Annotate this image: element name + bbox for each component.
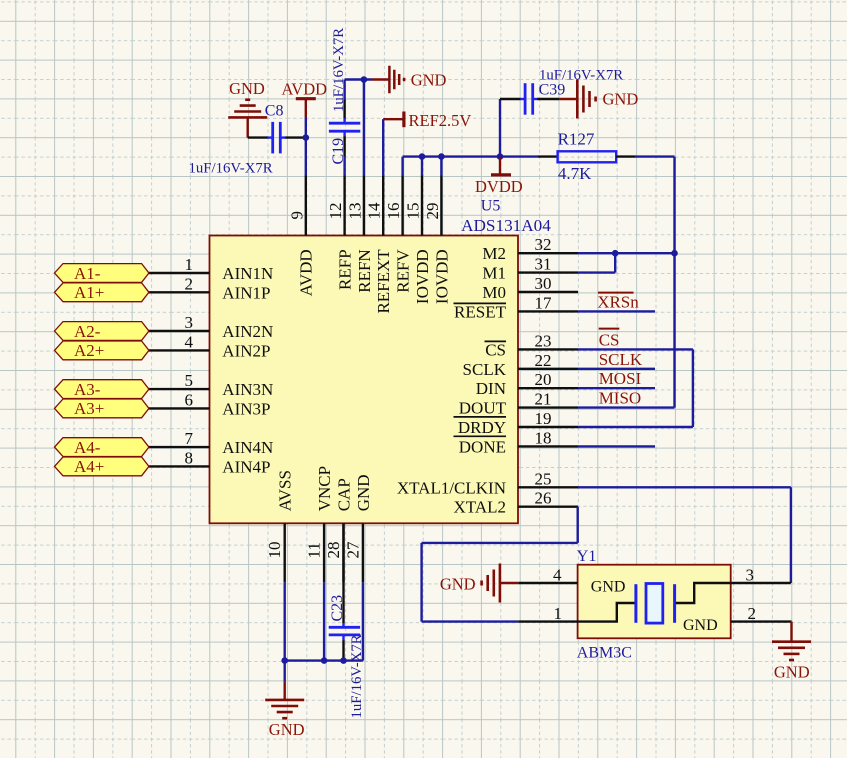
svg-text:7: 7 (185, 429, 194, 448)
wire DONE (578, 445, 655, 447)
svg-text:A1+: A1+ (74, 283, 104, 302)
U5 pin 12 REFP (top) (326, 176, 354, 290)
port A3- (55, 380, 149, 399)
svg-text:13: 13 (345, 203, 364, 220)
wire M1 up to M2 (578, 253, 615, 272)
U5 pin 31 M1 (482, 255, 578, 283)
svg-text:23: 23 (535, 331, 552, 350)
U5 pin 23 CS (485, 331, 578, 359)
svg-text:GND: GND (440, 575, 476, 594)
U5 pin 2 AIN1P (149, 274, 271, 302)
junction VNCP rail (321, 657, 328, 664)
svg-text:REFV: REFV (394, 249, 413, 293)
Y1 pin 4 GND (518, 566, 625, 596)
svg-text:GND: GND (774, 663, 810, 682)
wire AVDD to pin 9 (305, 118, 307, 176)
junction C23 rail (340, 657, 347, 664)
svg-text:28: 28 (324, 542, 343, 559)
U5 pin 20 DIN (476, 370, 578, 398)
svg-text:CS: CS (599, 330, 620, 349)
svg-text:14: 14 (365, 202, 384, 220)
Y1 pin 1 (518, 604, 577, 623)
svg-text:CS: CS (485, 340, 506, 359)
U5 pin 27 GND (bottom) (343, 474, 372, 582)
svg-text:GND: GND (591, 579, 626, 596)
U5 pin 3 AIN2N (149, 313, 274, 341)
power port REF2.5V (383, 111, 471, 130)
svg-text:A3-: A3- (74, 380, 101, 399)
power port GND (above C8) (228, 79, 267, 137)
U5 pin 23 CS overbar (485, 340, 507, 342)
U5 pin 1 AIN1N (149, 255, 274, 283)
C39 designator (539, 81, 566, 98)
U5 pin 19 DRDY (458, 409, 578, 437)
svg-text:26: 26 (535, 489, 552, 508)
svg-text:AVSS: AVSS (276, 470, 295, 511)
wire VNCP down (323, 582, 325, 660)
svg-text:1: 1 (554, 604, 563, 623)
wire bottom gnd rail (285, 659, 344, 661)
wire C19/REFN to GND (345, 78, 372, 80)
svg-text:ADS131A04: ADS131A04 (461, 216, 551, 235)
junction M1/M2 (612, 250, 619, 257)
wire DOUT to R127 net (578, 406, 675, 408)
svg-text:REFEXT: REFEXT (374, 249, 393, 314)
wire R127 down to M2/DOUT (673, 157, 675, 408)
svg-text:AIN3P: AIN3P (222, 399, 270, 418)
svg-text:U5: U5 (481, 198, 501, 215)
U5 pin 26 XTAL2 (454, 489, 578, 517)
capacitor C23 (329, 523, 360, 660)
svg-text:A1-: A1- (74, 264, 101, 283)
ground (left of Y1) (440, 564, 518, 603)
junction pin 15 (419, 153, 426, 160)
port A2- (55, 322, 149, 341)
svg-text:18: 18 (535, 428, 552, 447)
port A4- (55, 438, 149, 457)
svg-text:M2: M2 (482, 244, 506, 263)
svg-text:19: 19 (535, 409, 552, 428)
svg-text:8: 8 (185, 448, 194, 467)
junction AVSS rail (281, 657, 288, 664)
wire XTAL2 to Y1 pin 1 (422, 507, 578, 622)
svg-text:DVDD: DVDD (475, 177, 523, 196)
U5 pin 18 DONE (459, 428, 578, 456)
svg-text:3: 3 (746, 566, 755, 585)
svg-text:GND: GND (229, 79, 265, 98)
svg-text:11: 11 (305, 542, 324, 558)
U5 pin 28 CAP (bottom) (324, 478, 353, 582)
Y1 designator (577, 548, 597, 565)
resistor R127 (500, 151, 675, 162)
svg-text:2: 2 (748, 604, 757, 623)
svg-text:AIN2N: AIN2N (222, 322, 273, 341)
svg-text:AIN3N: AIN3N (222, 380, 273, 399)
svg-text:CAP: CAP (334, 478, 353, 511)
svg-text:XRSn: XRSn (597, 292, 639, 311)
svg-text:AVDD: AVDD (282, 79, 328, 98)
C23 value 1uF/16V-X7R (vertical) (349, 634, 365, 718)
C19 designator (vertical) (330, 138, 347, 165)
U5 pin 10 AVSS (bottom) (265, 470, 294, 582)
svg-text:15: 15 (404, 203, 423, 220)
port A1+ (55, 283, 149, 302)
svg-text:M1: M1 (482, 264, 506, 283)
svg-text:REFP: REFP (336, 249, 355, 290)
svg-text:AVDD: AVDD (297, 249, 316, 296)
U5 part number ADS131A04 (461, 216, 551, 235)
svg-text:1uF/16V-X7R: 1uF/16V-X7R (189, 161, 273, 177)
IC U5 ADS131A04 body (210, 236, 519, 524)
ground (bottom, AVSS) (265, 682, 304, 739)
svg-text:17: 17 (535, 293, 553, 312)
U5 pin 7 AIN4N (149, 429, 274, 457)
R127 designator (558, 129, 595, 148)
ground (right of C39) (559, 80, 638, 119)
net label CS (599, 329, 620, 350)
svg-text:GND: GND (683, 617, 718, 634)
svg-text:GND: GND (411, 71, 447, 90)
svg-text:A2-: A2- (74, 322, 101, 341)
svg-text:6: 6 (185, 390, 194, 409)
U5 pin 6 AIN3P (149, 390, 271, 418)
U5 pin 17 RESET overbar (454, 302, 507, 304)
wire M2 (578, 252, 675, 254)
Y1 crystal element (578, 583, 731, 623)
R127 value 4.7K (558, 164, 592, 183)
svg-text:C39: C39 (539, 81, 566, 98)
C19 value 1uF/16V-X7R (vertical) (331, 28, 347, 112)
U5 pin 17 RESET (454, 293, 578, 321)
crystal Y1 body (578, 565, 731, 639)
C39 value 1uF/16V-X7R (539, 67, 623, 83)
capacitor C19 (329, 80, 360, 176)
svg-text:REF2.5V: REF2.5V (409, 111, 472, 130)
junction pin 29 (438, 153, 445, 160)
svg-text:4: 4 (553, 566, 562, 585)
svg-text:1uF/16V-X7R: 1uF/16V-X7R (331, 28, 347, 112)
U5 pin 29 IOVDD (top) (423, 176, 451, 305)
svg-text:MOSI: MOSI (599, 369, 642, 388)
Y1 part number ABM3C (577, 644, 632, 661)
junction AVDD/C8 (303, 134, 310, 141)
wire pin 13 REFN up (363, 80, 365, 176)
svg-text:DRDY: DRDY (458, 418, 506, 437)
net label MOSI (599, 369, 642, 388)
svg-text:GND: GND (269, 720, 305, 739)
power port AVDD (282, 79, 328, 118)
ground (right of C19) (372, 66, 447, 94)
port A2+ (55, 341, 149, 360)
U5 pin 4 AIN2P (149, 332, 271, 360)
svg-text:10: 10 (265, 542, 284, 559)
net label MISO (599, 388, 642, 407)
C8 value 1uF/16V-X7R (189, 161, 273, 177)
svg-text:R127: R127 (558, 129, 595, 148)
svg-text:16: 16 (384, 203, 403, 220)
svg-text:2: 2 (185, 274, 194, 293)
C8 designator (265, 103, 284, 120)
svg-text:22: 22 (535, 351, 552, 370)
wire REF2.5V to pin 14 REFEXT (382, 119, 384, 176)
svg-text:A4-: A4- (74, 438, 101, 457)
svg-text:REFN: REFN (355, 249, 374, 292)
wire AVSS down (284, 582, 286, 660)
svg-text:SCLK: SCLK (599, 350, 643, 369)
port A4+ (55, 457, 149, 476)
C23 designator (vertical) (329, 595, 346, 622)
svg-text:Y1: Y1 (577, 548, 597, 565)
U5 pin 16 REFV (top) (384, 176, 412, 293)
ground (below Y1 pin 2) (772, 622, 811, 682)
wire RESET net XRSn (578, 310, 655, 312)
svg-text:29: 29 (423, 203, 442, 220)
net label XRSn (597, 292, 639, 311)
svg-text:1: 1 (185, 255, 194, 274)
svg-text:21: 21 (535, 390, 552, 409)
U5 pin 25 XTAL1/CLKIN (397, 469, 578, 497)
svg-text:32: 32 (535, 235, 552, 254)
wire CS to DRDY (578, 349, 693, 427)
U5 pin 21 DOUT underbar (454, 416, 507, 418)
svg-text:MISO: MISO (599, 388, 642, 407)
svg-text:25: 25 (535, 469, 552, 488)
U5 designator (481, 198, 501, 215)
junction REFN/GND wire (361, 76, 368, 83)
svg-text:AIN4N: AIN4N (222, 438, 273, 457)
svg-text:DOUT: DOUT (459, 399, 507, 418)
net label SCLK (599, 350, 643, 369)
U5 pin 11 VNCP (bottom) (305, 466, 334, 582)
U5 pin 32 M2 (482, 235, 578, 263)
svg-text:AIN1P: AIN1P (222, 283, 270, 302)
wire REFV/IOVDD rail (403, 157, 500, 176)
svg-text:12: 12 (326, 203, 345, 220)
Y1 pin 2 GND (683, 604, 792, 634)
svg-text:C23: C23 (329, 595, 346, 622)
svg-text:20: 20 (535, 370, 552, 389)
svg-text:A4+: A4+ (74, 457, 104, 476)
svg-text:DIN: DIN (476, 379, 506, 398)
svg-text:DONE: DONE (459, 437, 506, 456)
svg-text:4.7K: 4.7K (558, 164, 592, 183)
svg-text:AIN4P: AIN4P (222, 457, 270, 476)
power port DVDD (475, 157, 523, 196)
svg-text:A2+: A2+ (74, 341, 104, 360)
capacitor C39 (500, 83, 559, 156)
U5 pin 30 M0 (482, 274, 578, 302)
junction DVDD node (497, 153, 504, 160)
svg-text:27: 27 (343, 541, 362, 559)
svg-text:A3+: A3+ (74, 399, 104, 418)
svg-text:GND: GND (354, 474, 373, 511)
svg-text:9: 9 (287, 211, 306, 220)
svg-text:3: 3 (185, 313, 194, 332)
wire XTAL1/CLKIN to Y1 pin 3 (578, 487, 791, 583)
svg-text:IOVDD: IOVDD (432, 249, 451, 304)
svg-text:AIN2P: AIN2P (222, 341, 270, 360)
port A1- (55, 264, 149, 283)
U5 pin 19 DRDY underbar (454, 435, 507, 437)
svg-text:M0: M0 (482, 283, 506, 302)
U5 pin 15 IOVDD (top) (404, 176, 432, 305)
U5 pin 9 AVDD (top) (287, 176, 315, 297)
U5 pin 13 REFN (top) (345, 176, 373, 293)
svg-text:VNCP: VNCP (315, 466, 334, 511)
svg-text:C8: C8 (265, 103, 284, 120)
wire GND pin 27 down (344, 582, 363, 660)
svg-text:RESET: RESET (454, 302, 507, 321)
wire DIN (MOSI) (578, 387, 655, 389)
svg-text:30: 30 (535, 274, 552, 293)
junction M2/R127 (671, 250, 678, 257)
capacitor C8 (248, 122, 306, 153)
svg-text:XTAL1/CLKIN: XTAL1/CLKIN (397, 478, 506, 497)
svg-text:XTAL2: XTAL2 (454, 498, 506, 517)
wire rail to ground (284, 661, 286, 682)
U5 pin 5 AIN3N (149, 371, 274, 399)
svg-text:ABM3C: ABM3C (577, 644, 632, 661)
U5 pin 8 AIN4P (149, 448, 271, 476)
svg-text:IOVDD: IOVDD (413, 249, 432, 304)
port A3+ (55, 399, 149, 418)
U5 pin 22 SCLK (463, 351, 578, 379)
U5 pin 21 DOUT (459, 390, 578, 418)
Y1 pin 3 (731, 566, 791, 585)
svg-text:GND: GND (603, 90, 639, 109)
wire SCLK (578, 368, 655, 370)
svg-text:SCLK: SCLK (463, 360, 507, 379)
svg-text:31: 31 (535, 255, 552, 274)
svg-text:AIN1N: AIN1N (222, 264, 273, 283)
svg-text:4: 4 (185, 332, 194, 351)
svg-text:C19: C19 (330, 138, 347, 165)
U5 pin 14 REFEXT (top) (365, 176, 393, 314)
svg-text:5: 5 (185, 371, 194, 390)
